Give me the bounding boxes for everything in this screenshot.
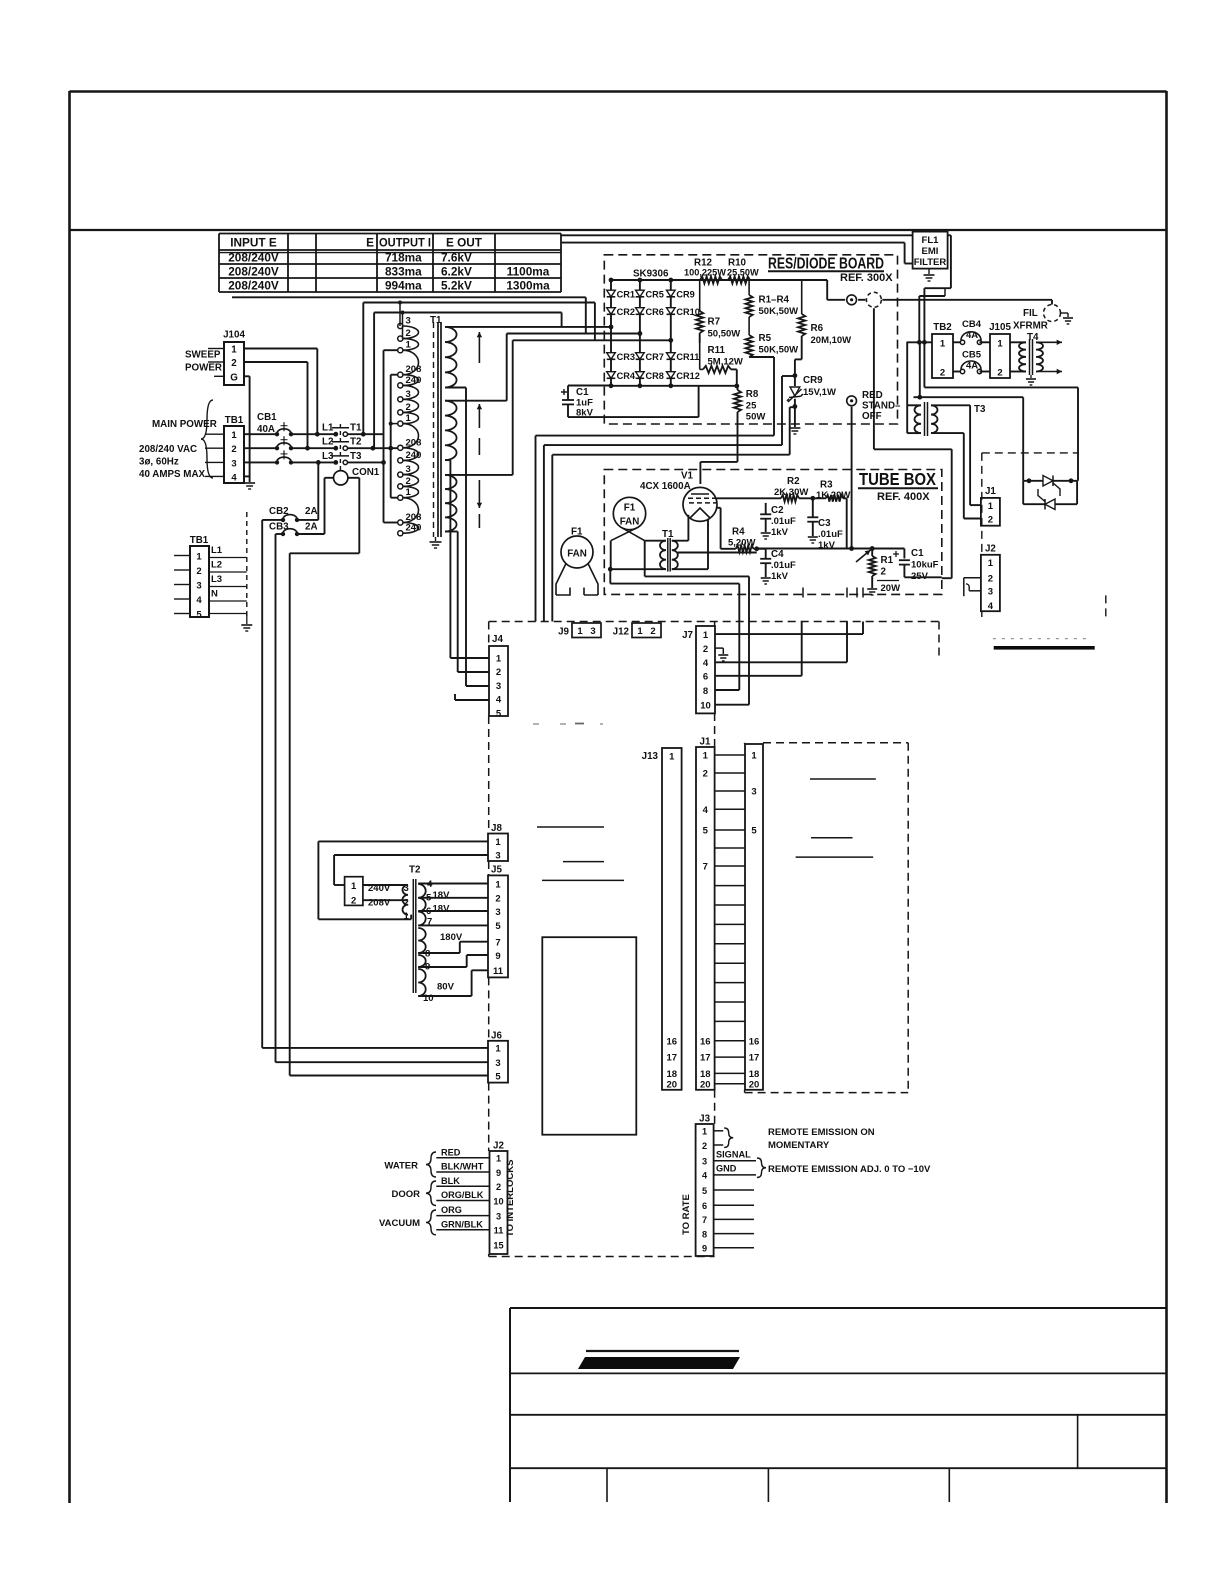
svg-text:4: 4 bbox=[496, 695, 502, 706]
svg-text:CB4: CB4 bbox=[962, 319, 982, 330]
svg-text:240: 240 bbox=[406, 450, 422, 461]
svg-text:2: 2 bbox=[231, 358, 237, 369]
diode CR1 bbox=[607, 290, 616, 297]
diode CR11 bbox=[667, 353, 676, 360]
wire J2 pin3 stub bbox=[969, 590, 981, 592]
svg-text:20M,10W: 20M,10W bbox=[811, 335, 852, 346]
svg-text:SWEEP: SWEEP bbox=[185, 350, 221, 361]
svg-text:ORG: ORG bbox=[441, 1205, 462, 1215]
wires J3 pins 5-9 bbox=[714, 1189, 754, 1191]
wire T1fil secondary top to V1 filament bbox=[672, 540, 689, 542]
svg-text:FL1: FL1 bbox=[922, 235, 940, 246]
svg-text:1: 1 bbox=[988, 558, 994, 569]
svg-text:180V: 180V bbox=[440, 932, 463, 943]
svg-text:R3: R3 bbox=[820, 480, 833, 491]
svg-text:5: 5 bbox=[196, 610, 202, 621]
dashed boundary right of J1 bbox=[982, 452, 1078, 454]
svg-text:J105: J105 bbox=[989, 322, 1011, 333]
svg-text:2: 2 bbox=[988, 515, 993, 526]
wire R5 bottom to wire A bbox=[749, 356, 774, 358]
wire T1 sec2 top to diode column 2 bbox=[445, 400, 507, 402]
svg-text:C1: C1 bbox=[576, 387, 589, 398]
resistor R8 25 50W bbox=[734, 390, 741, 412]
wire R3 to screen node bbox=[843, 497, 847, 499]
phasing arrow 1 bbox=[478, 332, 480, 363]
svg-text:L1: L1 bbox=[211, 545, 223, 556]
ratings table bbox=[219, 233, 561, 235]
svg-text:3: 3 bbox=[406, 464, 411, 475]
svg-text:T2: T2 bbox=[350, 437, 362, 448]
wire J7 pin2 to ground bbox=[715, 647, 723, 649]
svg-text:WATER: WATER bbox=[384, 1161, 418, 1172]
svg-text:1: 1 bbox=[406, 413, 412, 424]
connector J105 bbox=[990, 334, 1010, 378]
rail L1 row to terminal 3 via top loop bbox=[362, 303, 364, 435]
svg-text:CR9: CR9 bbox=[803, 375, 823, 386]
svg-text:1: 1 bbox=[496, 654, 502, 665]
svg-text:1: 1 bbox=[196, 552, 202, 563]
svg-text:5: 5 bbox=[495, 921, 501, 932]
svg-text:50W: 50W bbox=[746, 412, 766, 423]
svg-text:25,50W: 25,50W bbox=[727, 268, 759, 278]
lower board dashed right edge bbox=[714, 622, 716, 627]
svg-text:FIL: FIL bbox=[1023, 308, 1038, 319]
brace main power bbox=[201, 400, 213, 478]
svg-text:TO INTERLOCKS: TO INTERLOCKS bbox=[505, 1160, 516, 1237]
door brace bbox=[426, 1181, 436, 1206]
vacuum brace bbox=[426, 1210, 436, 1235]
svg-text:2: 2 bbox=[988, 574, 993, 585]
svg-text:18V: 18V bbox=[433, 904, 451, 915]
svg-text:N: N bbox=[211, 589, 218, 600]
resistor R1-R4 50K 50W bbox=[748, 280, 750, 295]
svg-text:2: 2 bbox=[702, 1141, 707, 1151]
wire T4 to anode cap connector bbox=[1051, 300, 1053, 306]
svg-text:V1: V1 bbox=[681, 471, 694, 482]
wire CB2 input rail down to J6 pin1 bbox=[262, 519, 283, 521]
anode cap dashed circle at tube bbox=[1044, 305, 1061, 322]
wire anode node down to output rail bbox=[873, 308, 875, 449]
svg-text:208: 208 bbox=[406, 437, 422, 448]
svg-text:4: 4 bbox=[703, 658, 709, 669]
wire T1 sec1 bottom to J4 pin3 bbox=[445, 387, 466, 389]
svg-text:DOOR: DOOR bbox=[392, 1189, 421, 1200]
SCR lower bbox=[1022, 481, 1024, 504]
svg-text:11: 11 bbox=[493, 966, 504, 977]
svg-text:CR9: CR9 bbox=[676, 289, 694, 299]
resistor R5 50K 50W bbox=[748, 317, 750, 335]
lower board dashed bottom edge bbox=[489, 1256, 715, 1258]
resistor R6 20M 10W bbox=[801, 280, 803, 314]
lower board dashed outline left edge bbox=[488, 622, 490, 647]
svg-text:5: 5 bbox=[702, 1186, 707, 1196]
svg-text:CR5: CR5 bbox=[646, 289, 664, 299]
svg-text:GND: GND bbox=[716, 1164, 737, 1174]
svg-text:C2: C2 bbox=[771, 505, 784, 516]
svg-text:TB2: TB2 bbox=[933, 322, 952, 333]
svg-text:5: 5 bbox=[495, 1071, 501, 1082]
svg-text:16: 16 bbox=[667, 1036, 678, 1047]
svg-text:CR4: CR4 bbox=[617, 371, 636, 381]
svg-text:CR8: CR8 bbox=[646, 371, 664, 381]
svg-text:INPUT E: INPUT E bbox=[230, 236, 277, 250]
rail 208g1 to 1g3 bbox=[390, 375, 392, 498]
svg-text:208/240V: 208/240V bbox=[228, 250, 279, 264]
svg-text:RED: RED bbox=[441, 1147, 461, 1157]
connector board side bbox=[745, 744, 763, 1090]
svg-text:REMOTE EMISSION ON: REMOTE EMISSION ON bbox=[768, 1127, 875, 1138]
svg-text:8: 8 bbox=[425, 949, 430, 960]
wire row L1 to T1 primary rails bbox=[348, 433, 384, 435]
svg-text:SIGNAL: SIGNAL bbox=[716, 1150, 751, 1160]
wire jumper pin1 to tap3 bbox=[363, 884, 408, 886]
svg-text:3: 3 bbox=[702, 1157, 707, 1167]
svg-text:EMI: EMI bbox=[922, 246, 939, 257]
wire J8 pin3 to T2 jumper bbox=[334, 854, 488, 856]
svg-text:2: 2 bbox=[196, 566, 201, 577]
ground symbol anode cap bbox=[1061, 312, 1069, 314]
stub 208 group2 from L2 row bbox=[391, 447, 398, 449]
capacitor C2 .01uF 1kV bbox=[765, 503, 767, 514]
dashed stub far right bbox=[1105, 595, 1107, 619]
diode CR7 bbox=[636, 353, 645, 360]
redacted line bbox=[993, 638, 1089, 640]
page border frame bbox=[68, 91, 71, 1503]
svg-text:2: 2 bbox=[496, 667, 501, 678]
SCR upper bbox=[1023, 480, 1077, 482]
svg-text:J12: J12 bbox=[613, 627, 630, 638]
connector J2 right bbox=[981, 555, 1000, 611]
wire R6 node to wire B bbox=[782, 375, 795, 377]
interlock wires and labels bbox=[436, 1157, 489, 1159]
svg-text:3: 3 bbox=[406, 389, 411, 400]
zener diode CR9 15V 1W bbox=[794, 376, 796, 386]
svg-text:18: 18 bbox=[700, 1069, 711, 1080]
svg-text:9: 9 bbox=[496, 1168, 501, 1178]
svg-text:.01uF: .01uF bbox=[818, 529, 843, 540]
svg-text:CR12: CR12 bbox=[676, 371, 700, 381]
wire jumper pin2 to tap2 bbox=[363, 899, 408, 901]
svg-text:J5: J5 bbox=[491, 865, 502, 876]
tube box dashed outline bbox=[604, 470, 942, 595]
svg-text:4: 4 bbox=[231, 472, 237, 483]
ladder wires J1 to board bbox=[715, 754, 745, 756]
rail L2 row loop bbox=[373, 313, 375, 449]
svg-text:FILTER: FILTER bbox=[914, 257, 947, 268]
output node standoff circle bbox=[847, 295, 857, 305]
svg-text:J13: J13 bbox=[642, 751, 659, 762]
T1 core bbox=[433, 322, 435, 537]
svg-text:100,225W: 100,225W bbox=[684, 268, 726, 278]
wire T1fil secondary bottom to cathode bbox=[672, 568, 708, 570]
svg-text:2: 2 bbox=[495, 894, 500, 905]
svg-text:REF. 400X: REF. 400X bbox=[877, 491, 930, 503]
terminal block TB2 bbox=[932, 334, 953, 378]
svg-text:208: 208 bbox=[406, 512, 422, 523]
wire C bbox=[552, 454, 789, 456]
wire J7 pin10 bbox=[715, 704, 749, 706]
svg-text:7.6kV: 7.6kV bbox=[441, 250, 472, 264]
wire CB3 output up to CON1 bbox=[297, 533, 325, 535]
svg-text:J104: J104 bbox=[223, 330, 245, 341]
grid rail wire to R2 bbox=[717, 497, 781, 499]
svg-text:1: 1 bbox=[231, 345, 237, 356]
phasing arrow 2 bbox=[478, 404, 480, 428]
svg-text:3: 3 bbox=[590, 626, 595, 637]
wire to J7 pin10 rail bbox=[609, 569, 611, 583]
svg-text:3: 3 bbox=[496, 681, 501, 692]
svg-text:1: 1 bbox=[406, 340, 412, 351]
svg-text:C3: C3 bbox=[818, 518, 831, 529]
stub to terminal 3 group1 bbox=[399, 303, 401, 327]
svg-text:15V,1W: 15V,1W bbox=[803, 387, 836, 398]
ground symbol below CR9 bbox=[789, 427, 800, 429]
T1 secondary winding group 3 bbox=[445, 475, 457, 532]
capacitor C4 .01uF 1kV bbox=[765, 549, 767, 559]
svg-text:CB3: CB3 bbox=[269, 522, 289, 533]
svg-text:2: 2 bbox=[703, 769, 708, 780]
svg-text:CB5: CB5 bbox=[962, 350, 982, 361]
svg-text:REF. 300X: REF. 300X bbox=[840, 272, 893, 284]
svg-text:ORG/BLK: ORG/BLK bbox=[441, 1190, 484, 1200]
svg-text:J6: J6 bbox=[491, 1031, 502, 1042]
svg-text:R11: R11 bbox=[708, 345, 726, 356]
anode connector dashed circle bbox=[866, 292, 881, 307]
svg-text:L3: L3 bbox=[211, 574, 222, 585]
wire top rail to SCR pair bbox=[1022, 397, 1024, 481]
erased reference lines in board box bbox=[810, 778, 876, 780]
svg-text:2: 2 bbox=[351, 896, 356, 907]
svg-text:RED: RED bbox=[862, 390, 883, 401]
lower board dashed top edge bbox=[489, 621, 939, 623]
stub to terminal 2 group1 bbox=[402, 313, 404, 339]
svg-text:3: 3 bbox=[406, 316, 411, 327]
svg-text:C4: C4 bbox=[771, 549, 784, 560]
svg-text:6: 6 bbox=[703, 672, 708, 683]
svg-text:T1: T1 bbox=[350, 423, 362, 434]
svg-text:4: 4 bbox=[988, 601, 994, 612]
wire A from R5 to sweep rail bbox=[536, 435, 775, 437]
wire to J7 pin8 rail bbox=[644, 541, 646, 577]
wires J3 pins 3 4 signal gnd bbox=[714, 1160, 756, 1162]
svg-text:240: 240 bbox=[406, 523, 422, 534]
svg-text:1: 1 bbox=[997, 338, 1003, 349]
svg-text:1: 1 bbox=[940, 338, 946, 349]
svg-text:2: 2 bbox=[703, 644, 708, 655]
wire T1fil mid tap rail bbox=[678, 552, 757, 554]
connector J104 bbox=[224, 342, 244, 385]
svg-text:G: G bbox=[230, 372, 238, 383]
wire row L3 bbox=[348, 461, 384, 463]
wire HV low bus bbox=[568, 385, 611, 387]
svg-text:R7: R7 bbox=[708, 317, 721, 328]
svg-text:3: 3 bbox=[495, 907, 500, 918]
svg-text:1: 1 bbox=[703, 751, 709, 762]
adjust arrow into node bbox=[856, 550, 871, 562]
svg-text:1: 1 bbox=[702, 1127, 707, 1137]
svg-text:1: 1 bbox=[351, 881, 357, 892]
svg-text:208/240V: 208/240V bbox=[228, 264, 279, 278]
svg-text:2: 2 bbox=[231, 444, 236, 455]
diode CR8 bbox=[636, 372, 645, 379]
svg-text:CR7: CR7 bbox=[646, 352, 664, 362]
svg-text:2A: 2A bbox=[305, 522, 318, 533]
svg-text:3: 3 bbox=[231, 458, 236, 469]
wire top bus to EMI filter upper bbox=[561, 234, 913, 236]
T2 jumper block bbox=[345, 877, 363, 906]
wire J104 pin2 to contactor row L2 bbox=[244, 361, 308, 363]
wire J7 pin4 bbox=[715, 661, 847, 663]
wire fan right leg to T1fil top bbox=[645, 540, 666, 542]
svg-text:2: 2 bbox=[496, 1182, 501, 1192]
diode column at x=639.9 bbox=[639, 280, 641, 386]
svg-text:50,50W: 50,50W bbox=[708, 329, 741, 340]
resistor R10 bbox=[728, 276, 750, 283]
svg-text:5: 5 bbox=[496, 708, 502, 719]
wires J3 pins 1 2 bbox=[714, 1130, 724, 1132]
wire CB3 input rail down to J6 pin3 bbox=[276, 533, 284, 535]
wire top bus to EMI filter lower bbox=[561, 242, 905, 244]
ground symbol FL1 bbox=[928, 269, 930, 274]
wire B bbox=[544, 444, 782, 446]
diode CR5 bbox=[636, 290, 645, 297]
wire J7 pin6 bbox=[715, 675, 802, 677]
svg-text:OFF: OFF bbox=[862, 411, 882, 422]
wire stubs through tube box bottom edge bbox=[802, 588, 804, 598]
svg-text:1: 1 bbox=[637, 626, 643, 637]
diode bus top bbox=[611, 279, 802, 281]
svg-text:5.2kV: 5.2kV bbox=[441, 278, 472, 292]
svg-text:1: 1 bbox=[495, 1044, 501, 1055]
svg-text:TO RATE: TO RATE bbox=[681, 1194, 692, 1235]
svg-text:3: 3 bbox=[495, 851, 500, 862]
svg-text:J8: J8 bbox=[491, 823, 502, 834]
svg-text:T3: T3 bbox=[350, 451, 362, 462]
svg-text:.01uF: .01uF bbox=[771, 560, 796, 571]
svg-text:50K,50W: 50K,50W bbox=[759, 345, 799, 356]
svg-text:2A: 2A bbox=[305, 506, 318, 517]
svg-text:1: 1 bbox=[751, 751, 757, 762]
svg-text:3: 3 bbox=[495, 1058, 500, 1069]
svg-text:3: 3 bbox=[496, 1211, 501, 1221]
svg-text:208/240V: 208/240V bbox=[228, 278, 279, 292]
svg-text:1: 1 bbox=[703, 630, 709, 641]
capacitor C1 10kuF 25V bbox=[872, 548, 904, 550]
svg-text:7: 7 bbox=[495, 938, 500, 949]
wire R8 bottom to V1 anode bbox=[737, 412, 739, 462]
svg-text:CR1: CR1 bbox=[617, 289, 635, 299]
wire FL1 second down bbox=[918, 296, 920, 342]
svg-text:TUBE BOX: TUBE BOX bbox=[859, 469, 936, 489]
svg-text:718ma: 718ma bbox=[385, 250, 422, 264]
svg-text:J1: J1 bbox=[700, 737, 711, 748]
svg-text:17: 17 bbox=[700, 1053, 711, 1064]
svg-text:T2: T2 bbox=[409, 865, 421, 876]
connector J1 right bbox=[981, 498, 1000, 526]
svg-text:VACUUM: VACUUM bbox=[379, 1218, 420, 1229]
svg-text:10: 10 bbox=[423, 993, 434, 1004]
T1 secondary winding group 2 bbox=[445, 401, 457, 460]
svg-text:R6: R6 bbox=[811, 323, 824, 334]
svg-text:10: 10 bbox=[493, 1196, 503, 1206]
svg-text:BLK: BLK bbox=[441, 1176, 460, 1186]
svg-text:9: 9 bbox=[495, 951, 500, 962]
diode CR4 bbox=[607, 372, 616, 379]
wire CB2 output up to row L3 bbox=[297, 519, 318, 521]
faint erased marks bbox=[533, 723, 539, 725]
svg-text:CR2: CR2 bbox=[617, 307, 635, 317]
svg-text:1: 1 bbox=[496, 1154, 501, 1164]
svg-text:MOMENTARY: MOMENTARY bbox=[768, 1140, 830, 1151]
horizontal divider line bbox=[70, 229, 1167, 231]
svg-text:17: 17 bbox=[667, 1053, 678, 1064]
wire J7 pin8 bbox=[715, 689, 739, 691]
wire row L2 to 208 tap bbox=[348, 447, 399, 449]
svg-text:L2: L2 bbox=[211, 560, 222, 571]
svg-text:R1: R1 bbox=[881, 555, 894, 566]
wire CR9 node to wire C bbox=[790, 406, 795, 408]
svg-text:R5: R5 bbox=[759, 333, 772, 344]
wire C1 box bottom bbox=[568, 416, 699, 418]
svg-text:3: 3 bbox=[751, 787, 756, 798]
svg-text:FAN: FAN bbox=[567, 549, 587, 560]
svg-text:20: 20 bbox=[700, 1079, 711, 1090]
svg-text:J1: J1 bbox=[985, 486, 996, 497]
diode CR2 bbox=[607, 308, 616, 315]
svg-text:6.2kV: 6.2kV bbox=[441, 264, 472, 278]
svg-text:5M,12W: 5M,12W bbox=[708, 357, 743, 368]
svg-text:POWER: POWER bbox=[185, 363, 222, 374]
svg-text:240: 240 bbox=[406, 375, 422, 386]
wire TB1 pin4 to ground bbox=[244, 475, 250, 477]
svg-text:1: 1 bbox=[495, 837, 501, 848]
junction dots T1 wires into columns bbox=[609, 325, 614, 330]
svg-text:1: 1 bbox=[669, 752, 675, 763]
diode column at x=611 bbox=[610, 280, 612, 386]
svg-text:208V: 208V bbox=[368, 898, 391, 909]
ground symbol J7 pin2 bbox=[718, 654, 728, 656]
svg-text:.01uF: .01uF bbox=[771, 516, 796, 527]
diode column at x=670.8 bbox=[670, 280, 672, 386]
svg-text:17: 17 bbox=[749, 1053, 760, 1064]
svg-text:8: 8 bbox=[702, 1229, 707, 1239]
T4 secondary output arrows bbox=[1036, 341, 1062, 343]
board dashed box right bbox=[763, 742, 908, 744]
svg-text:5: 5 bbox=[703, 826, 709, 837]
wire CON1 right down to J6 feed bbox=[348, 477, 359, 479]
red standoff symbol bbox=[847, 396, 857, 406]
stub 1 group2 bbox=[391, 423, 398, 425]
svg-text:5: 5 bbox=[751, 826, 757, 837]
terminal block TB1 bbox=[224, 426, 244, 483]
diode CR6 bbox=[636, 308, 645, 315]
svg-text:7: 7 bbox=[703, 862, 708, 873]
wire J104 ground pin bbox=[244, 375, 250, 377]
svg-text:16: 16 bbox=[700, 1036, 711, 1047]
wire HV output through standoffs bbox=[827, 299, 845, 301]
rail terminals 1g1 to 208g3 bbox=[383, 350, 385, 522]
svg-text:4: 4 bbox=[427, 879, 433, 890]
svg-text:3: 3 bbox=[988, 587, 993, 598]
svg-text:4: 4 bbox=[703, 805, 709, 816]
ground symbol T1 core bbox=[435, 537, 437, 541]
wire J4 pin4 stub bbox=[455, 699, 489, 701]
capacitor C3 .01uF 1kV bbox=[812, 498, 814, 517]
phasing arrow 3 bbox=[478, 480, 480, 508]
svg-text:REMOTE EMISSION ADJ. 0 TO: REMOTE EMISSION ADJ. 0 TO −10V bbox=[768, 1164, 931, 1175]
svg-text:1kV: 1kV bbox=[771, 571, 789, 582]
wire TB1-lower pin5 to ground bbox=[209, 613, 247, 615]
